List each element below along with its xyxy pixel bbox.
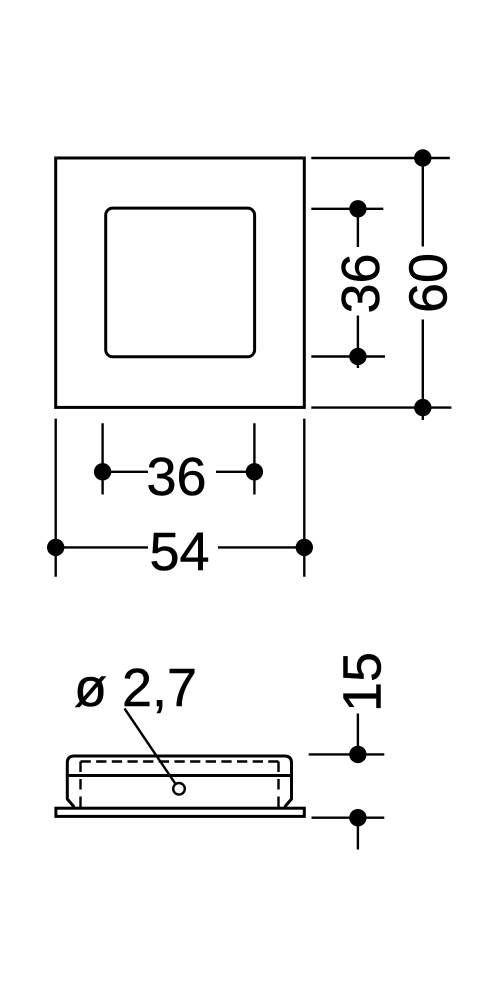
svg-text:36: 36 bbox=[146, 447, 206, 507]
dimension line 54 horizontal bbox=[56, 546, 305, 548]
extension line inner top (y=208.8) bbox=[311, 208, 383, 210]
extension line base bottom (y=817.7) bbox=[312, 817, 385, 819]
svg-text:ø 2,7: ø 2,7 bbox=[74, 658, 197, 718]
extension line cap top (y=754.4) bbox=[309, 753, 385, 755]
svg-text:15: 15 bbox=[332, 652, 392, 712]
base plate bbox=[56, 808, 304, 816]
extension line bottom right (x=304.3) bbox=[303, 419, 305, 577]
svg-text:60: 60 bbox=[398, 253, 458, 313]
dot 36h right bbox=[246, 463, 263, 480]
extension line bottom right (y=407.6) bbox=[311, 406, 451, 408]
extension line hole left (x=102.6) bbox=[101, 423, 103, 494]
inner rounded square (recess) bbox=[106, 208, 255, 357]
dot 60 bottom bbox=[414, 399, 431, 416]
leader line bbox=[125, 709, 176, 785]
svg-text:54: 54 bbox=[149, 522, 209, 582]
dashed hidden left line bbox=[79, 762, 81, 808]
hole circle bbox=[173, 783, 185, 795]
dot 15 top bbox=[349, 746, 366, 763]
dashed hidden right line bbox=[277, 762, 279, 808]
dot 15 bottom bbox=[349, 809, 366, 826]
cap inner solid line bbox=[67, 774, 291, 777]
outer square (plan view, 54x60 plate) bbox=[56, 158, 305, 407]
dot 36h left bbox=[94, 463, 111, 480]
extension line hole right (x=254.4) bbox=[253, 423, 255, 494]
dimension line 36 vertical bbox=[357, 209, 359, 368]
extension line inner bottom (y=356.5) bbox=[311, 355, 385, 357]
extension line bottom left (x=55.7) bbox=[55, 419, 57, 577]
dimension line 60 vertical bbox=[422, 158, 424, 420]
dot 36 top bbox=[349, 200, 366, 217]
cap outline (side view) bbox=[67, 756, 291, 807]
svg-text:36: 36 bbox=[331, 253, 391, 313]
dot 54 left bbox=[47, 539, 64, 556]
dot 54 right bbox=[296, 539, 313, 556]
dot 60 top bbox=[414, 149, 431, 166]
dashed hidden top line bbox=[81, 760, 279, 762]
extension line top right (y=158) bbox=[311, 157, 450, 159]
dot 36 bottom bbox=[349, 348, 366, 365]
dimension line 15 bbox=[357, 714, 359, 850]
dimension line 36 horizontal bbox=[103, 471, 255, 473]
